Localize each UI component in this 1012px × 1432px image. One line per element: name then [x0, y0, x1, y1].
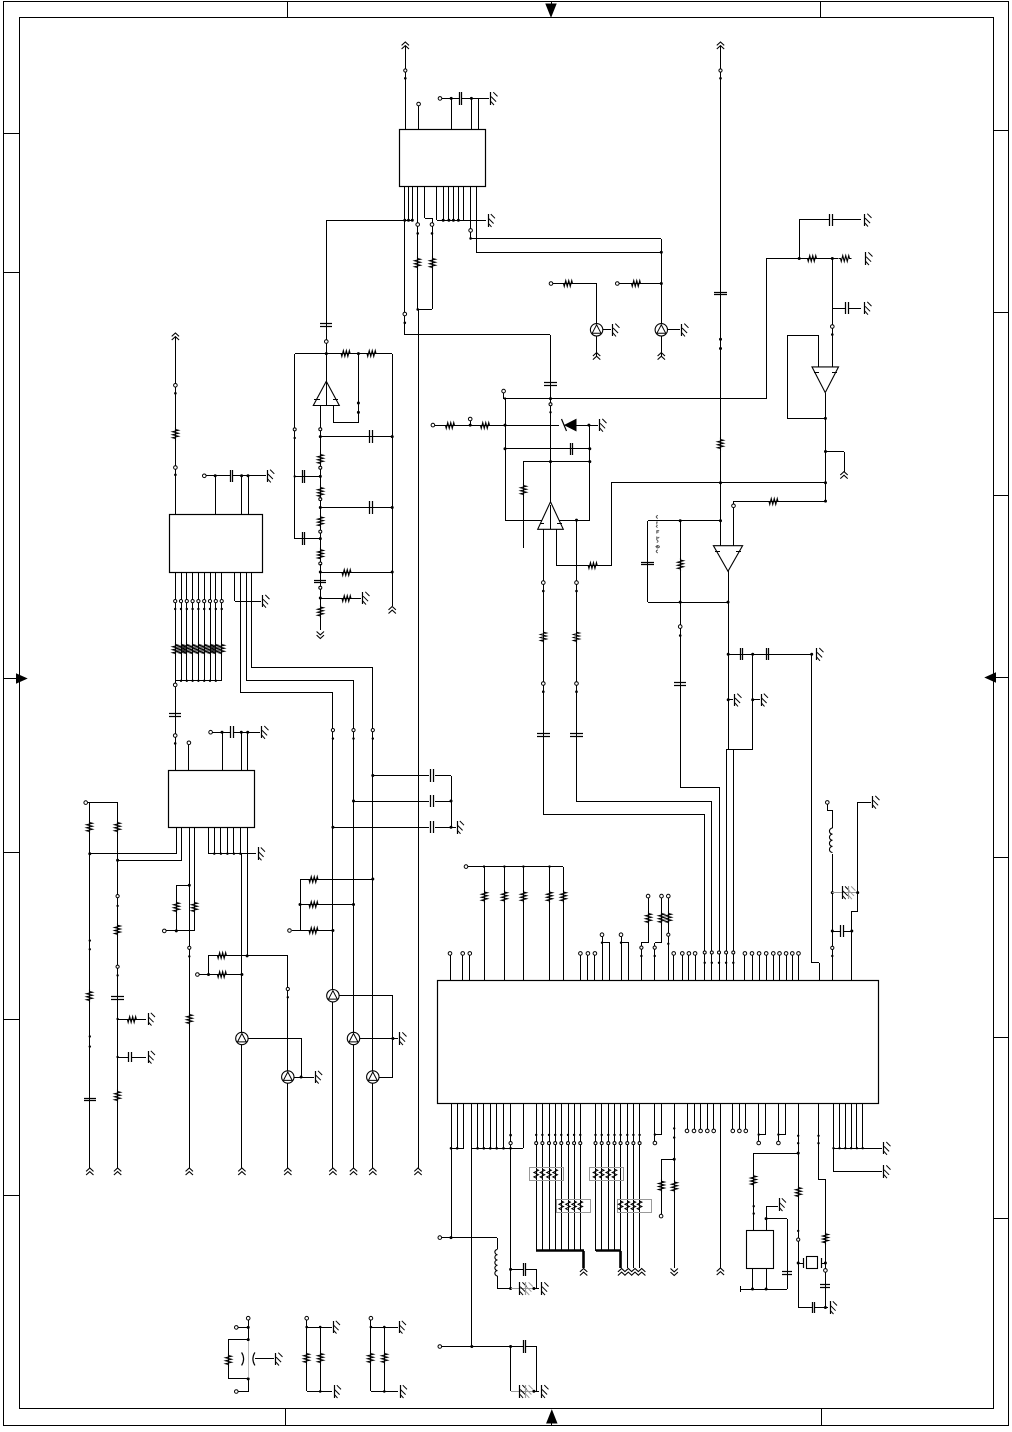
resistor R37 — [672, 1180, 678, 1193]
wire U9 right loop — [766, 1218, 787, 1220]
wire — [752, 654, 754, 750]
wire feedback R17 net — [734, 501, 825, 503]
U8 top terminal pins left — [450, 955, 452, 980]
wire x589 rail — [589, 425, 591, 520]
border tick left 2 — [4, 272, 19, 274]
wire pin drop right — [833, 1148, 835, 1172]
op-amp U5 — [713, 546, 742, 572]
wire Q7 out — [248, 1038, 301, 1040]
ground — [333, 1321, 335, 1333]
wire U6 pin to trunk C1 — [240, 572, 242, 693]
border tick right 5 — [993, 1037, 1008, 1039]
wire U7 pin 1 — [176, 827, 178, 854]
border tick left 1 — [4, 133, 19, 135]
ground — [830, 1301, 832, 1314]
resistor R23 jog from trunk D — [188, 884, 191, 887]
capacitor C6 — [302, 470, 304, 483]
wire R1 R2 merge — [418, 309, 432, 311]
ground — [864, 214, 866, 226]
U8 top terminal pins right — [744, 955, 746, 980]
terminal — [369, 1316, 373, 1320]
U8 top terminal pins mid — [580, 955, 582, 980]
wire cap spur 2 — [832, 308, 846, 310]
wire U5 output — [728, 571, 730, 602]
capacitor C15 — [766, 648, 768, 660]
op-amp U3 — [538, 502, 564, 530]
wire inductor net — [826, 801, 830, 805]
wire cap row B — [352, 800, 355, 803]
resistor R3 — [562, 281, 575, 287]
wire to sub IC — [754, 1153, 798, 1155]
wire arrow stub — [582, 1251, 585, 1268]
resistor R45 — [382, 1352, 388, 1365]
border arrow left — [17, 674, 27, 683]
wire leg x576 — [576, 520, 578, 801]
wire drop x287 — [287, 956, 289, 1071]
wire trunk to U7 — [175, 681, 177, 770]
wire Q4 out gnd — [360, 1038, 398, 1040]
wire g3 bottom — [371, 1391, 398, 1393]
wire — [619, 283, 661, 285]
U8 terminal pins row2 — [732, 1104, 734, 1129]
resistor R43 — [318, 1352, 324, 1365]
wire — [248, 1379, 250, 1392]
power V+ arrow for U1 — [402, 42, 409, 45]
IC U6 — [170, 515, 263, 573]
buffer Q1 — [590, 324, 602, 336]
resistor R36 — [659, 1179, 665, 1192]
wire vertical to buffer Q1 — [596, 284, 598, 324]
resonator X2 curves — [242, 1352, 244, 1365]
U8 respack lines 1 — [536, 1104, 538, 1251]
chevron down — [671, 1272, 678, 1275]
wire L2 leg — [497, 1238, 499, 1249]
wire U4 output — [825, 393, 827, 501]
wire right leg down — [857, 893, 859, 911]
ground — [399, 1321, 401, 1333]
terminal — [549, 282, 553, 286]
U1 top pin stub with terminal — [418, 106, 420, 130]
wire cap row 2 — [320, 507, 392, 509]
resistor R29a — [115, 821, 121, 834]
wire loop left — [647, 521, 649, 602]
wire bottom-left bus 1 — [451, 1148, 464, 1150]
wire bottom-left bus 2 — [472, 1148, 523, 1150]
wire Q3 out — [339, 995, 393, 997]
power arrow — [114, 1168, 121, 1171]
capacitor C17 — [230, 726, 232, 738]
capacitor C7 — [369, 501, 371, 514]
wire U1 pin to net Y239 — [470, 186, 472, 239]
wire U7 pin 247 drop — [247, 827, 249, 956]
IC U9 — [747, 1231, 774, 1269]
wire jog to IC pin — [680, 787, 719, 789]
U8 bottom left pins to bus — [451, 1104, 453, 1148]
op-amp U2 — [313, 381, 339, 405]
border arrow top — [546, 4, 556, 17]
wire right leg — [857, 802, 859, 893]
resistor R46 — [444, 423, 457, 429]
resistor R22 — [300, 930, 333, 932]
resistor R5 — [718, 438, 724, 451]
wire drop to Y1237 — [451, 1148, 453, 1238]
wire pin drop — [215, 476, 217, 514]
wire pin drops — [241, 476, 243, 514]
wire vertical to buffer Q2 — [661, 239, 663, 324]
wire net Y252 — [476, 252, 661, 254]
wire trunk C1 — [332, 693, 334, 990]
staple jumper 2 — [621, 937, 623, 980]
wire grounds row 1 — [727, 698, 730, 701]
wire down legs — [510, 1346, 512, 1391]
ground — [362, 592, 364, 604]
terminal on long pin — [403, 312, 407, 316]
wire loop bottom — [648, 602, 728, 604]
wire U2 center — [326, 381, 328, 406]
wire res row B — [196, 973, 200, 977]
wire gnd inline row — [832, 892, 858, 894]
wire up to Y483 — [611, 483, 613, 566]
terminal — [719, 69, 722, 72]
ground end — [541, 1282, 543, 1295]
wire — [553, 283, 597, 285]
ground row C — [457, 821, 459, 834]
capacitor C18 — [84, 1098, 96, 1100]
wire U6 pin to trunk C2 — [246, 572, 248, 680]
wire U6 left pins with resistors — [175, 572, 177, 681]
buffer Q2 — [655, 324, 667, 336]
U2 input ticks — [314, 399, 320, 401]
wire pair bus — [163, 929, 167, 933]
resistor R16 — [839, 256, 852, 262]
capacitor C8 — [302, 532, 304, 545]
wire pin drops — [241, 732, 243, 770]
wire gnd row2 — [511, 1391, 534, 1393]
wire U7 right pins — [208, 827, 210, 854]
wire gnd row — [320, 598, 361, 600]
capacitor C23 — [812, 1302, 814, 1313]
wire U3 in legs — [543, 529, 545, 815]
U8 pin pair circle 1 — [654, 1104, 656, 1141]
resistor R20 — [300, 879, 373, 881]
U8 pin splitter — [674, 1104, 676, 1265]
resistor R21 — [300, 904, 354, 906]
border tick right 1 — [993, 130, 1008, 132]
wire U6 pin to trunk C3 — [251, 572, 253, 668]
wire cap row left 2 — [295, 538, 320, 540]
trunk D components — [188, 946, 191, 949]
ground — [267, 470, 269, 482]
wire Q3 below — [332, 1002, 334, 1168]
wire long net 1 — [88, 852, 91, 855]
capacitor C10 — [829, 214, 831, 226]
wire gnd spur res — [118, 1019, 146, 1021]
wire g3 top — [370, 1320, 372, 1327]
terminal — [235, 1326, 239, 1330]
wire U7 pin 2 — [181, 827, 183, 860]
wire U1 pin R2 leg — [424, 186, 426, 218]
inductor L1 — [832, 810, 834, 828]
U8 long pin arrow up — [720, 1104, 722, 1268]
wire inp rail — [523, 462, 525, 548]
chevron wave — [618, 1269, 625, 1272]
resistor R18 vertical — [680, 521, 682, 787]
terminal bypass net — [438, 97, 442, 101]
wire output spur arrow — [825, 451, 844, 453]
node on U1 power wire — [404, 69, 407, 72]
capacitor C20 — [523, 1340, 525, 1353]
border arrow bottom — [547, 1411, 557, 1424]
border tick left 5 — [4, 1195, 19, 1197]
wire drop long — [471, 1148, 473, 1346]
wire Q5 out — [379, 1077, 393, 1079]
U8 pin pair circle 3 — [778, 1104, 780, 1141]
wire drop to cap net — [510, 1148, 512, 1288]
power arrow down — [317, 635, 324, 638]
capacitor C16 — [230, 470, 232, 482]
resistor bank R31-R35 — [484, 867, 486, 980]
power arrow — [86, 1168, 93, 1171]
wire g2 bottom — [307, 1391, 332, 1393]
resistor pack RP4 — [618, 1200, 652, 1213]
capacitor C4 — [320, 323, 332, 325]
wire pin drop — [222, 732, 224, 770]
resistor R30 — [115, 1090, 121, 1103]
wire box left rail — [505, 399, 507, 520]
diode D1 — [565, 420, 576, 431]
wire U7 gnd bus — [209, 853, 256, 855]
wire diode net — [431, 423, 435, 427]
bundle terminals — [703, 951, 706, 954]
wire g3 legs — [370, 1327, 372, 1391]
wire U7 pin trunk D — [189, 827, 191, 1168]
U8 pin crystal net — [798, 1104, 800, 1308]
wire U3 in leg 2 — [556, 529, 558, 566]
wire Q5 below — [372, 1083, 374, 1168]
wire crystal gnd — [798, 1307, 812, 1309]
wire U1 pin drops to cap net — [451, 98, 453, 130]
ground — [865, 252, 867, 265]
capacitor C9 — [314, 580, 326, 582]
ground — [261, 726, 263, 738]
wire Q4 below — [353, 1045, 355, 1168]
res pins mid right — [646, 894, 650, 898]
border tick right 4 — [993, 857, 1008, 859]
capacitor C12 80pF — [641, 562, 654, 564]
IC U1 — [400, 130, 486, 187]
wire res row A — [208, 956, 210, 974]
wire cap row A — [371, 774, 374, 777]
wire Q7 below — [241, 1045, 243, 1168]
border tick left 3 — [4, 852, 19, 854]
wire resonator gray — [248, 1341, 250, 1377]
terminal — [246, 1316, 250, 1320]
wire long net 2 — [116, 859, 119, 862]
power arrow below Q2 — [661, 336, 663, 356]
power arrow up — [840, 472, 847, 475]
bus bar 1 — [536, 1249, 584, 1252]
ground — [275, 1353, 277, 1365]
ground for U1 bus — [488, 214, 490, 227]
wire net Y399 — [503, 393, 505, 399]
resistor R1 — [415, 257, 421, 270]
ground — [334, 1385, 336, 1398]
resistor R13 — [340, 596, 353, 602]
wire trunk A down left side — [418, 309, 420, 1168]
wire res trio left — [288, 929, 292, 933]
wire Y1346 — [442, 1346, 523, 1348]
power arrow — [329, 1168, 336, 1171]
wire bus left of U1 — [326, 220, 412, 222]
capacitor C1 — [459, 92, 461, 105]
terminal — [438, 1236, 442, 1240]
wire left rail — [294, 354, 296, 539]
wire cap row left 1 — [295, 476, 320, 478]
wire Q6 below — [287, 1083, 289, 1168]
border tick right 6 — [993, 1218, 1008, 1220]
resistor R11 — [318, 548, 324, 561]
wire gnd spur cap — [118, 1057, 128, 1059]
wire grounds row 2 — [751, 698, 754, 701]
terminal — [616, 282, 620, 286]
U7 stub terminal — [188, 745, 190, 770]
wire U7 pin 4 — [194, 827, 196, 931]
wire U2 input chain — [320, 406, 322, 576]
wire res bank bus — [464, 865, 468, 869]
components leg x543 — [542, 581, 546, 585]
wire box bottom — [505, 520, 590, 522]
resistor R17 — [767, 499, 780, 505]
wire leg F1 — [89, 803, 91, 1168]
IC U8 — [438, 981, 879, 1104]
border tick bottom 2 — [821, 1408, 823, 1426]
wire U9 bottom bar — [740, 1289, 787, 1291]
border tick right 2 — [993, 312, 1008, 314]
wire corner to right — [405, 334, 550, 336]
border tick right 3 — [993, 495, 1008, 497]
U8 terminal pins row — [687, 1104, 689, 1129]
capacitor C19 — [832, 931, 840, 933]
resistor R38 — [751, 1174, 757, 1187]
wire — [497, 1276, 499, 1288]
buffer Q6 — [282, 1071, 294, 1083]
stub terminal — [470, 421, 472, 425]
resistor R10 — [318, 515, 324, 528]
ground — [883, 1165, 885, 1178]
wire cap row C — [331, 826, 334, 829]
power up arrow bar1 — [580, 1269, 587, 1272]
wire U4 loop — [787, 336, 789, 418]
resistor R27 — [215, 972, 228, 978]
terminal — [84, 801, 88, 805]
resistor R28 — [87, 821, 93, 834]
terminal — [678, 625, 682, 629]
wire U5 output down — [728, 602, 730, 750]
buffer Q7 — [236, 1032, 248, 1044]
wire long net Y483 — [611, 482, 825, 484]
ground — [599, 419, 601, 431]
wire ground bus U1 — [437, 220, 486, 222]
bus bar 2 — [596, 1249, 621, 1252]
wire trunk from U1 bus — [326, 220, 328, 381]
U4 input ticks — [814, 372, 819, 374]
crystal X1 — [797, 1262, 800, 1265]
wire res row — [320, 572, 392, 574]
wire g2 legs — [306, 1327, 308, 1391]
resistor R7 — [365, 351, 378, 357]
IC U7 — [169, 771, 255, 828]
terminal — [325, 340, 329, 344]
wire trunk C2 — [353, 680, 355, 1032]
wire bus Y814 to U8 — [543, 814, 705, 816]
wire cap spur — [799, 220, 801, 258]
resistor R28b — [87, 990, 93, 1003]
wire trunk B into U5 — [679, 519, 682, 522]
resistor R41 branch — [228, 1339, 248, 1341]
capacitor C22 — [820, 1284, 830, 1286]
wire trunk E — [241, 854, 243, 1032]
capacitor C21 — [782, 1271, 792, 1273]
border tick top 1 — [287, 2, 289, 18]
resistor R6 — [339, 351, 352, 357]
wire U1 pin R1 leg — [417, 186, 419, 309]
junction dots cap net — [450, 97, 453, 100]
ground U7 bus — [258, 847, 260, 860]
ground — [400, 1385, 402, 1398]
wire U5 inv input — [733, 501, 735, 546]
wire right corner up — [766, 258, 768, 399]
op-amp U4 — [812, 367, 839, 393]
resistor pack RP3 — [590, 1168, 624, 1181]
U3 input ticks — [540, 523, 544, 525]
terminal — [319, 562, 322, 565]
wire — [238, 1327, 248, 1329]
power arrow U6 — [172, 333, 179, 336]
capacitor C11 — [845, 302, 847, 314]
resistor R42 — [304, 1352, 310, 1365]
wire right rail — [392, 354, 394, 606]
wire Y1237 — [442, 1237, 497, 1239]
wire diode right — [576, 425, 598, 427]
components leg x576 — [575, 581, 579, 585]
resistor R4 — [630, 281, 643, 287]
wire left pair bus — [88, 802, 118, 804]
wire U6 pin bus — [175, 680, 222, 682]
junction dots — [407, 219, 410, 222]
wire cap spur — [509, 1268, 512, 1271]
power arrow — [186, 1168, 193, 1171]
resistor pack RP2 — [557, 1200, 591, 1213]
wire opamp box top — [295, 353, 392, 355]
capacitor C14 — [740, 648, 742, 660]
wire net Y239 — [471, 238, 661, 240]
resistor R24 — [192, 901, 198, 914]
wire U1 grounded pins — [436, 186, 438, 220]
wire branch left — [661, 1159, 674, 1161]
wire row 461 — [523, 461, 590, 463]
ground — [883, 1142, 885, 1154]
wire — [255, 1358, 274, 1360]
wire U1 pin to net Y252 — [476, 186, 478, 252]
wire Q6 out — [294, 1077, 314, 1079]
wire U9 gnd spur — [766, 1219, 768, 1231]
ground caps row — [816, 648, 818, 660]
U8 right pins to gnd bus — [833, 1104, 835, 1148]
capacitor C5 — [369, 430, 371, 443]
resistor R48 — [521, 484, 527, 497]
U8 pin pair circle 2 — [758, 1104, 760, 1141]
staple jumper 1 — [602, 937, 604, 980]
